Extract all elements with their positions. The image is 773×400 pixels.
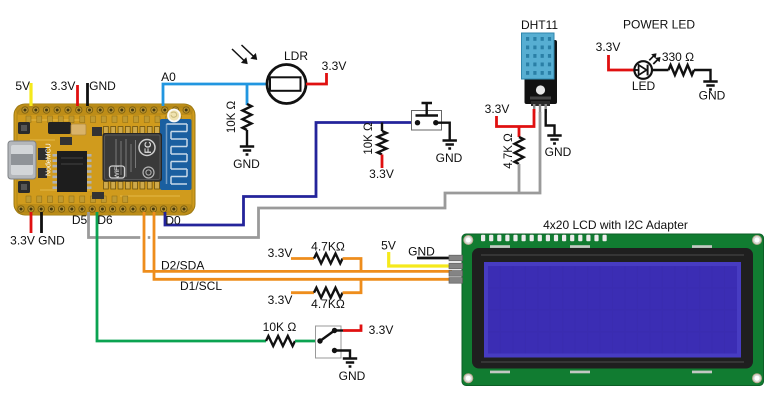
svg-text:GND: GND	[436, 151, 463, 165]
wire 3.3V (red) to DHT11 VCC	[497, 109, 535, 127]
resistor R5 4.7K (SDA pullup)	[291, 257, 314, 260]
svg-text:10K Ω: 10K Ω	[226, 100, 238, 133]
svg-text:D0: D0	[165, 214, 181, 228]
svg-text:D5: D5	[72, 213, 88, 227]
LDR light arrows	[232, 45, 257, 64]
wire D0 (navy) from board to push button	[165, 123, 416, 226]
svg-text:4.7KΩ: 4.7KΩ	[311, 240, 345, 254]
svg-text:GND: GND	[408, 245, 435, 259]
wire 3.3V (red) board bottom	[30, 212, 33, 233]
svg-text:4.7K Ω: 4.7K Ω	[503, 133, 515, 169]
LED D1	[634, 61, 652, 79]
wire switch to ground	[335, 351, 351, 359]
wire D2/SDA (orange) board to LCD	[144, 212, 452, 271]
wire D5 (gray) data from DHT11 to board	[89, 112, 541, 238]
svg-text:POWER LED: POWER LED	[623, 18, 695, 32]
wire crossing gaps over gray D5 wire	[144, 234, 154, 242]
svg-text:LED: LED	[632, 79, 656, 93]
wire cyan tap to R1	[246, 84, 249, 105]
LED emission arrows	[649, 54, 660, 65]
svg-text:DHT11: DHT11	[521, 18, 558, 32]
resistor R7 10K (switch)	[266, 336, 295, 346]
svg-text:5V: 5V	[381, 239, 396, 253]
svg-text:3.3V: 3.3V	[596, 40, 621, 54]
ESP8266 NodeMCU board U1	[8, 104, 195, 215]
svg-text:3.3V: 3.3V	[322, 59, 347, 73]
wire R3 bottom to data net	[518, 164, 521, 194]
wire D6 (green) board to R7	[97, 212, 266, 341]
svg-text:D2/SDA: D2/SDA	[161, 259, 204, 273]
wire switch to 3.3V	[335, 329, 344, 331]
wire GND (black) to board top	[86, 83, 89, 106]
svg-text:3.3V: 3.3V	[10, 234, 35, 248]
wire 5V (yellow) to LCD	[389, 252, 452, 266]
svg-text:5V: 5V	[15, 79, 30, 93]
wire R1 to ground	[246, 130, 248, 146]
DHT11 sensor module	[522, 33, 558, 113]
resistor R2 10K (button pullup)	[381, 123, 383, 132]
ground (button)	[443, 141, 457, 149]
ground (DHT11)	[547, 136, 561, 144]
svg-text:GND: GND	[699, 89, 726, 103]
svg-text:GND: GND	[38, 234, 65, 248]
svg-text:NodeMCU: NodeMCU	[46, 143, 53, 176]
svg-text:GND: GND	[545, 145, 572, 159]
ground (R1)	[240, 147, 254, 155]
svg-text:4.7KΩ: 4.7KΩ	[311, 297, 345, 311]
wire LED to R4	[651, 69, 668, 71]
svg-text:GND: GND	[339, 369, 366, 383]
wire 3.3V (red) from LDR	[306, 73, 327, 84]
svg-text:GND: GND	[89, 79, 116, 93]
svg-text:10K Ω: 10K Ω	[363, 122, 375, 155]
svg-text:330 Ω: 330 Ω	[662, 50, 694, 64]
wire R4 to ground	[694, 70, 711, 81]
LCD module LCD1	[449, 234, 764, 386]
resistor R3 4.7K (DHT pullup)	[515, 137, 524, 164]
wire D1/SCL (orange) board to LCD	[154, 212, 452, 279]
svg-text:WiFi: WiFi	[114, 166, 121, 179]
wire R7 to switch	[295, 340, 320, 343]
svg-text:FC: FC	[143, 141, 153, 153]
svg-text:GND: GND	[233, 157, 260, 171]
LDR photoresistor	[267, 65, 306, 104]
wire 5V (yellow) to board top	[29, 83, 32, 106]
wire 3.3V (red) to LED	[609, 55, 635, 70]
resistor R1 10K (LDR divider)	[243, 104, 252, 130]
wire DHT11 GND pin to ground	[546, 109, 555, 135]
wire button to ground	[436, 123, 450, 140]
switch S2 (SPDT)	[316, 326, 342, 358]
wire GND (black) board bottom	[40, 212, 43, 233]
svg-text:3.3V: 3.3V	[369, 167, 394, 181]
svg-text:D6: D6	[97, 213, 113, 227]
svg-text:3.3V: 3.3V	[268, 246, 293, 260]
svg-text:3.3V: 3.3V	[268, 293, 293, 307]
ground (switch)	[343, 359, 357, 367]
resistor R6 4.7K (SCL pullup)	[291, 291, 314, 294]
svg-text:3.3V: 3.3V	[51, 79, 76, 93]
wire GND (black) to LCD	[417, 257, 452, 260]
svg-text:3.3V: 3.3V	[369, 323, 394, 337]
svg-text:3.3V: 3.3V	[485, 102, 510, 116]
svg-text:4x20 LCD with I2C Adapter: 4x20 LCD with I2C Adapter	[543, 218, 688, 232]
ground (LED)	[703, 82, 717, 90]
svg-text:LDR: LDR	[284, 49, 308, 63]
svg-text:D1/SCL: D1/SCL	[180, 279, 222, 293]
svg-text:10K Ω: 10K Ω	[263, 320, 297, 334]
push button S1	[412, 103, 442, 130]
svg-text:A0: A0	[161, 70, 176, 84]
wire 3.3V (red) to board top	[76, 85, 79, 106]
wire red tee to R3	[518, 127, 521, 138]
wire A0 (cyan) from board to LDR	[163, 84, 267, 106]
resistor R4 330	[669, 65, 695, 75]
